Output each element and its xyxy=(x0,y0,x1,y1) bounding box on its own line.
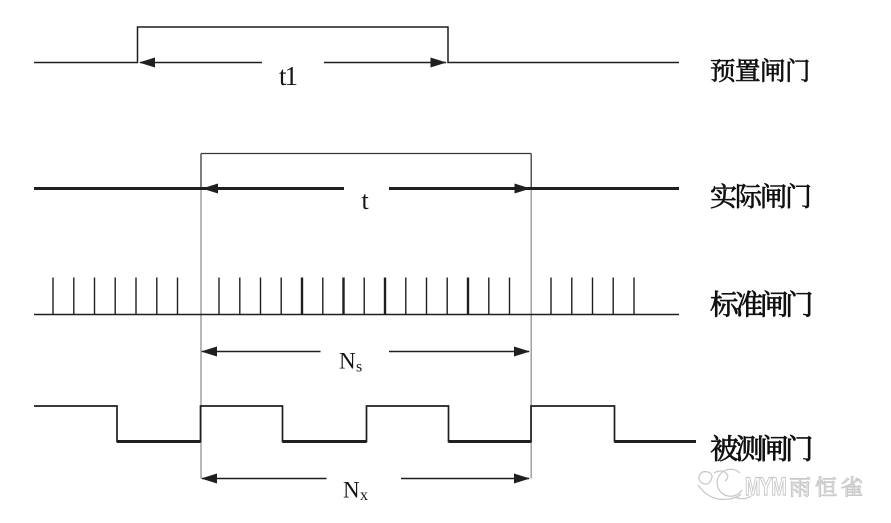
svg-text:MYM: MYM xyxy=(745,472,786,500)
svg-text:N: N xyxy=(339,349,356,374)
svg-text:t: t xyxy=(362,186,370,215)
svg-text:N: N xyxy=(343,478,360,503)
svg-text:x: x xyxy=(360,487,368,504)
svg-text:t1: t1 xyxy=(279,61,297,91)
svg-text:s: s xyxy=(356,359,362,376)
